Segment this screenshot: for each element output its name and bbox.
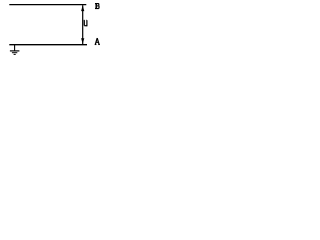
voltage arrow u shaft: [82, 5, 84, 44]
ground stem: [14, 45, 16, 51]
voltage arrow u lower arrowhead: [81, 38, 84, 44]
label voltage u: [84, 20, 87, 26]
label node B: [95, 3, 99, 9]
ground bar 3: [14, 53, 16, 55]
wire top rail (node B): [9, 4, 86, 6]
label node A: [95, 38, 100, 44]
ground bar 1: [10, 50, 20, 52]
ground bar 2: [12, 52, 17, 54]
voltage arrow u upper arrowhead: [81, 5, 84, 11]
wire bottom rail (node A): [9, 44, 87, 46]
